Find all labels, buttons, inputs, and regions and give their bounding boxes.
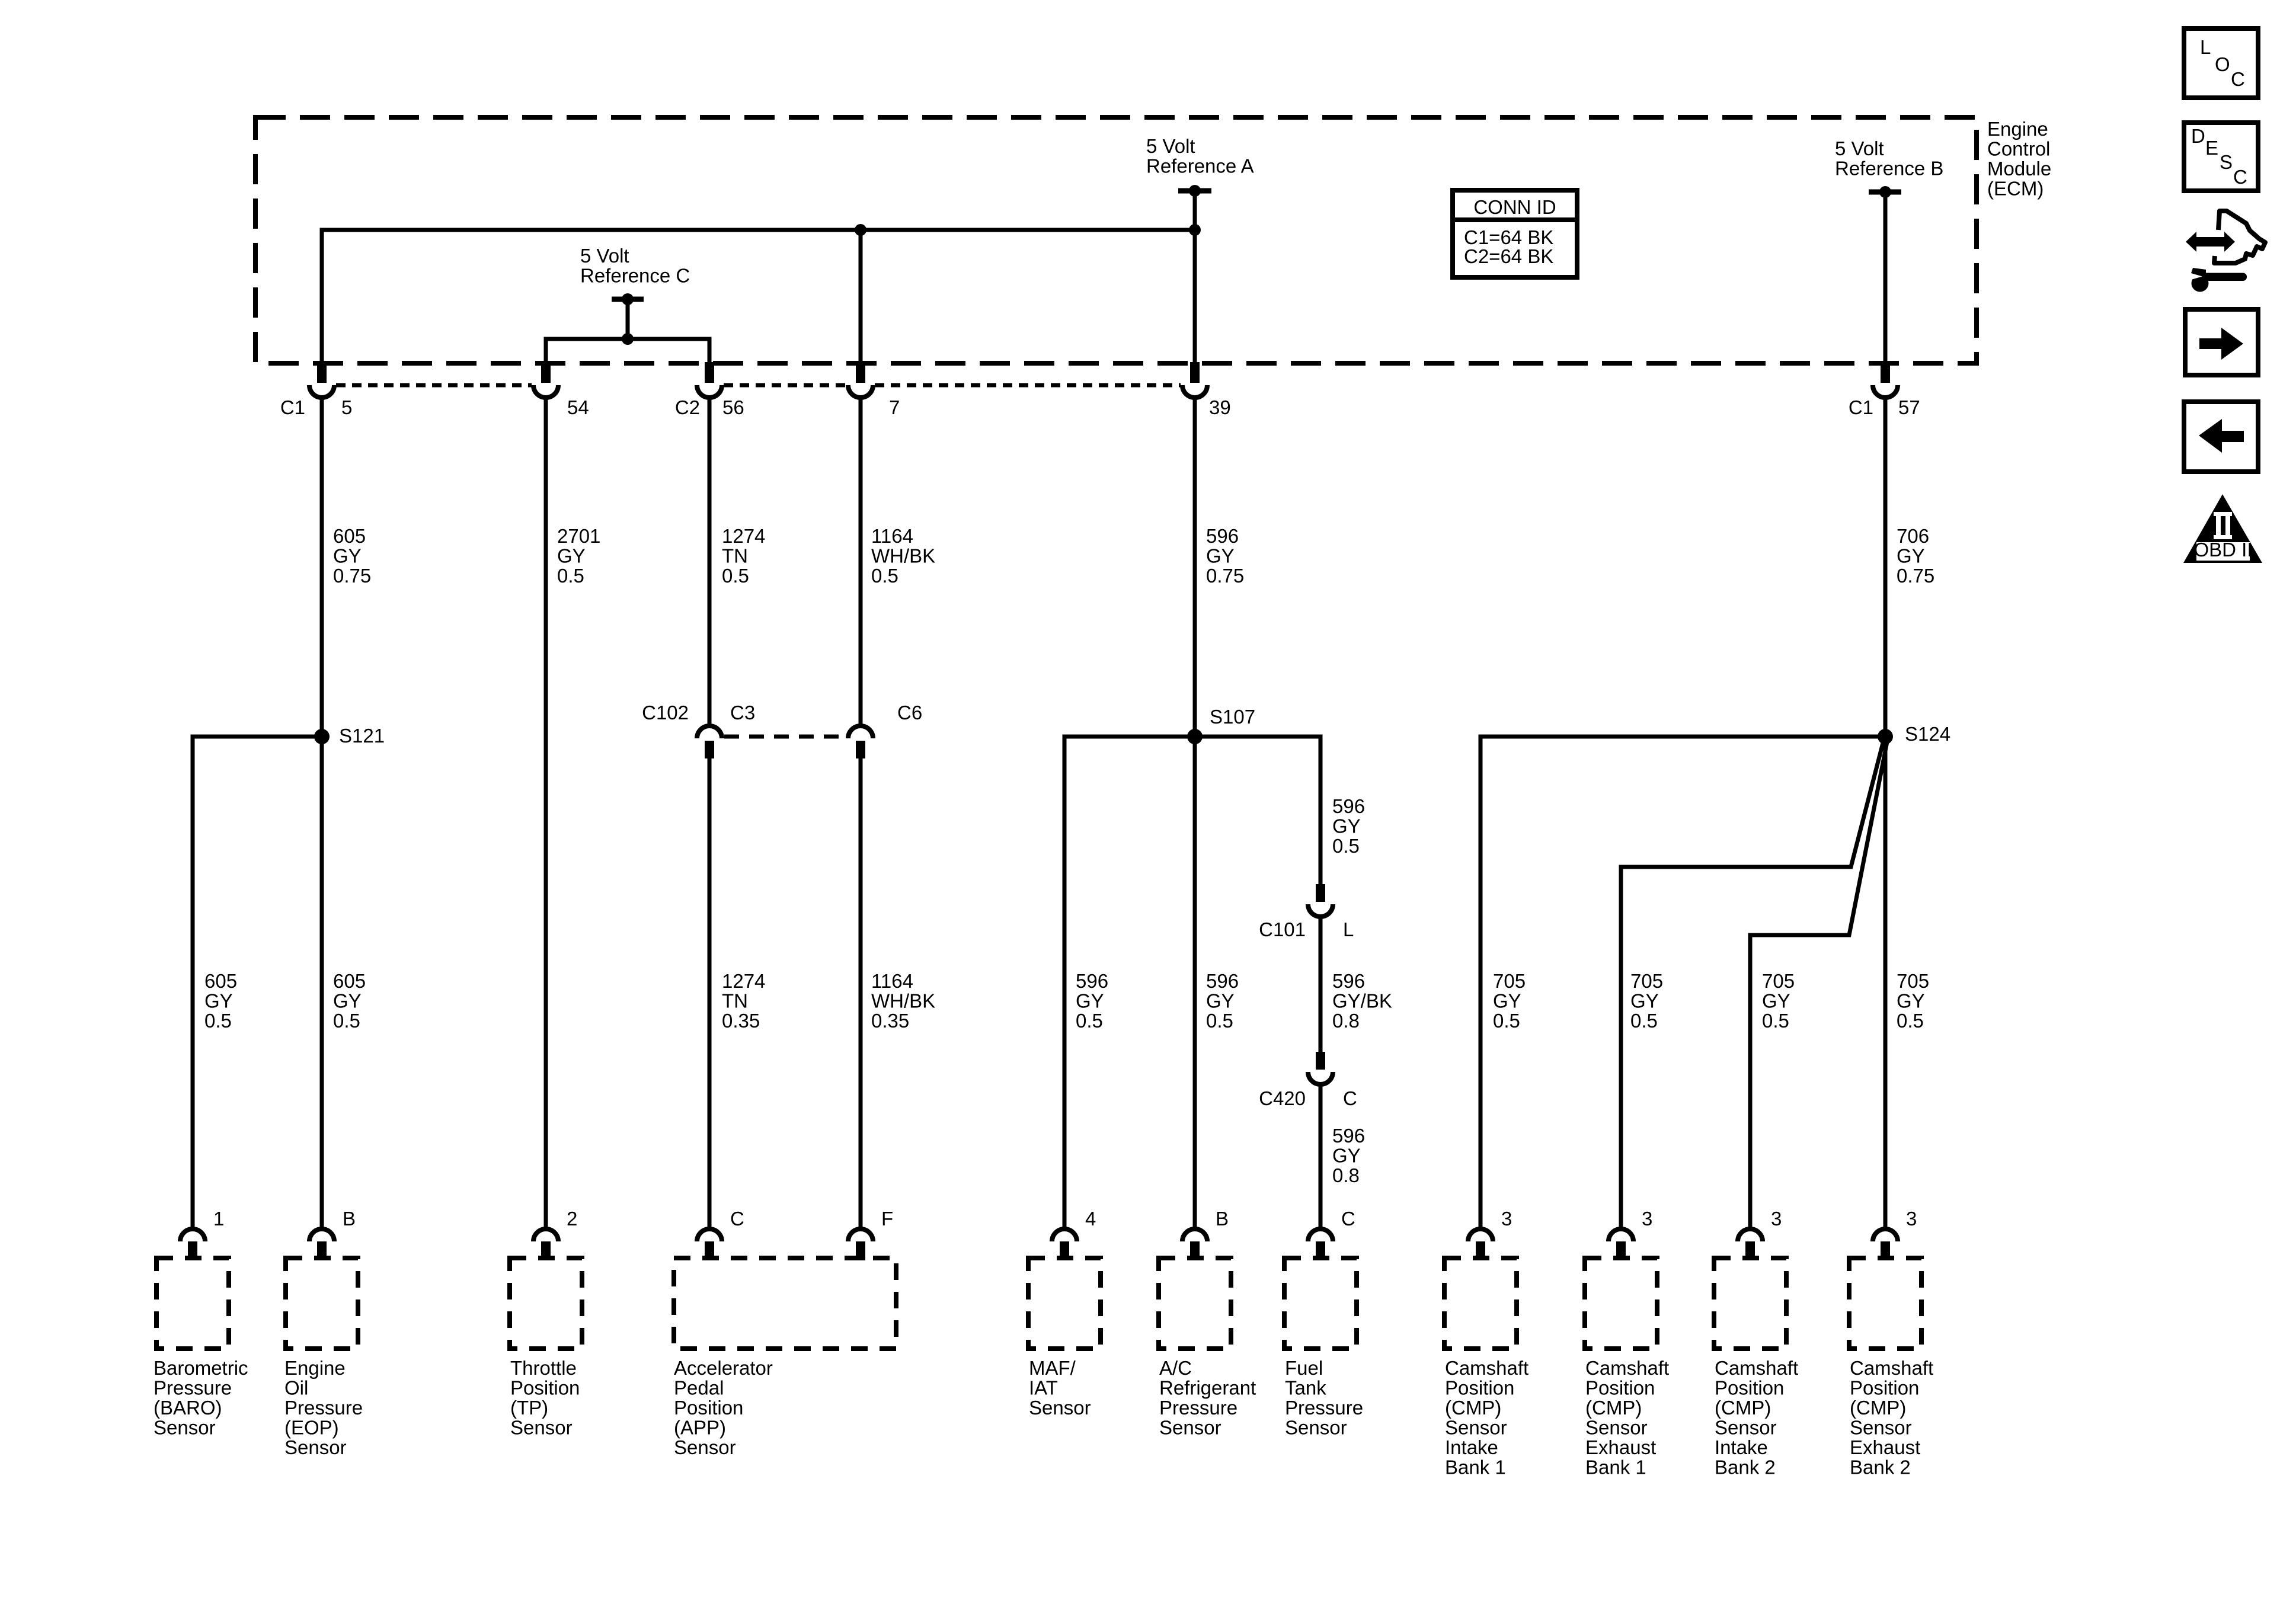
svg-text:1164: 1164 <box>871 970 913 992</box>
svg-text:2: 2 <box>567 1208 577 1230</box>
wire: Ref C split to pins 54 and 56 <box>546 339 709 363</box>
svg-text:0.5: 0.5 <box>1076 1010 1103 1032</box>
svg-text:705: 705 <box>1630 970 1663 992</box>
svg-text:S121: S121 <box>339 725 385 747</box>
svg-text:(ECM): (ECM) <box>1987 178 2044 200</box>
junction node on bus at Ref A <box>1189 224 1201 236</box>
svg-text:596: 596 <box>1076 970 1108 992</box>
svg-text:0.35: 0.35 <box>722 1010 760 1032</box>
ECM connector pin terminal 2 <box>541 362 551 383</box>
svg-text:596: 596 <box>1206 970 1239 992</box>
svg-text:Pedal: Pedal <box>674 1377 724 1399</box>
svg-text:GY: GY <box>1332 1145 1361 1167</box>
svg-text:2701: 2701 <box>557 525 600 547</box>
svg-text:0.5: 0.5 <box>557 565 584 587</box>
wire 596 GY: C420 to fuel tank sensor <box>1319 1085 1323 1228</box>
connector body dotted line C1 <box>336 383 532 388</box>
svg-text:54: 54 <box>567 396 589 418</box>
svg-text:GY: GY <box>1630 990 1659 1012</box>
svg-text:Bank 2: Bank 2 <box>1715 1457 1776 1478</box>
svg-text:5 Volt: 5 Volt <box>1146 135 1195 157</box>
sensor dashed box Barometric <box>156 1258 229 1349</box>
wire 596 GY/BK: C101 to C420 <box>1319 917 1323 1053</box>
svg-text:Throttle: Throttle <box>510 1357 577 1379</box>
svg-text:(EOP): (EOP) <box>284 1417 339 1439</box>
sensor connector terminal pin C at x=1197 <box>697 1229 722 1241</box>
sensor dashed box Camshaft <box>1849 1258 1921 1349</box>
sensor connector terminal pin 4 at x=1796 <box>1052 1229 1077 1241</box>
svg-text:E: E <box>2205 137 2218 159</box>
svg-text:GY: GY <box>1493 990 1521 1012</box>
svg-text:GY: GY <box>1897 990 1925 1012</box>
svg-text:39: 39 <box>1209 396 1231 418</box>
splice S121 <box>314 729 330 744</box>
svg-text:Camshaft: Camshaft <box>1585 1357 1669 1379</box>
svg-text:C: C <box>2231 68 2245 90</box>
wire S107 branch crossbar <box>1064 737 1320 1228</box>
sensor connector terminal pin F at x=1452 <box>848 1229 873 1241</box>
svg-text:0.75: 0.75 <box>1897 565 1934 587</box>
wire: Ref C tap down <box>626 299 630 339</box>
svg-text:Camshaft: Camshaft <box>1850 1357 1933 1379</box>
svg-text:C: C <box>730 1208 744 1230</box>
sensor connector terminal pin B at x=2016 <box>1182 1229 1207 1241</box>
svg-text:Position: Position <box>1585 1377 1655 1399</box>
svg-text:Position: Position <box>1445 1377 1514 1399</box>
svg-text:TN: TN <box>722 990 748 1012</box>
svg-text:B: B <box>343 1208 356 1230</box>
svg-text:WH/BK: WH/BK <box>871 545 935 567</box>
svg-text:Refrigerant: Refrigerant <box>1159 1377 1256 1399</box>
svg-text:Pressure: Pressure <box>154 1377 232 1399</box>
svg-text:0.5: 0.5 <box>1762 1010 1789 1032</box>
CONN ID table <box>1453 190 1577 277</box>
svg-text:GY: GY <box>1076 990 1104 1012</box>
svg-text:GY: GY <box>333 990 362 1012</box>
sensor connector terminal pin 3 at x=2953 <box>1738 1229 1763 1241</box>
svg-text:1274: 1274 <box>722 525 765 547</box>
svg-text:3: 3 <box>1906 1208 1917 1230</box>
inline connector C101 <box>1316 884 1325 902</box>
ECM connector pin terminal 5 <box>1190 362 1200 383</box>
svg-text:Sensor: Sensor <box>1285 1417 1347 1439</box>
svg-text:L: L <box>1343 918 1354 940</box>
svg-text:1164: 1164 <box>871 525 913 547</box>
svg-text:GY: GY <box>204 990 233 1012</box>
sensor connector terminal pin 1 at x=325 <box>180 1229 205 1241</box>
svg-text:GY: GY <box>333 545 362 567</box>
svg-text:0.5: 0.5 <box>204 1010 232 1032</box>
svg-text:S107: S107 <box>1210 706 1255 728</box>
svg-text:GY: GY <box>1897 545 1925 567</box>
svg-text:Intake: Intake <box>1445 1436 1498 1458</box>
svg-text:Camshaft: Camshaft <box>1715 1357 1798 1379</box>
junction node on bus at pin 7 wire <box>855 224 866 236</box>
svg-text:705: 705 <box>1897 970 1929 992</box>
svg-text:Control: Control <box>1987 138 2050 160</box>
svg-text:0.5: 0.5 <box>1897 1010 1924 1032</box>
ECM module dashed box <box>255 117 1977 363</box>
svg-text:706: 706 <box>1897 525 1929 547</box>
svg-text:Intake: Intake <box>1715 1436 1768 1458</box>
wire S124 branch to CMP exhaust bank 1 <box>1621 741 1884 1228</box>
svg-text:Pressure: Pressure <box>284 1397 363 1419</box>
svg-text:GY/BK: GY/BK <box>1332 990 1392 1012</box>
sensor connector terminal pin B at x=543 <box>309 1229 334 1241</box>
svg-text:3: 3 <box>1642 1208 1652 1230</box>
5 Volt Reference C power tap <box>612 297 644 302</box>
svg-text:C102: C102 <box>642 702 689 724</box>
icon LOC box <box>2184 28 2258 98</box>
svg-text:S: S <box>2220 151 2233 173</box>
svg-text:GY: GY <box>557 545 586 567</box>
svg-text:(CMP): (CMP) <box>1585 1397 1642 1419</box>
svg-text:C: C <box>2233 166 2247 188</box>
svg-text:Reference C: Reference C <box>580 265 690 287</box>
svg-text:C: C <box>1343 1087 1357 1109</box>
connector body dotted line C2 <box>724 383 846 388</box>
svg-text:Sensor: Sensor <box>154 1417 216 1439</box>
svg-text:Sensor: Sensor <box>284 1436 347 1458</box>
svg-text:Engine: Engine <box>1987 118 2048 140</box>
wire: Ref B tap to pin 57 <box>1884 192 1888 363</box>
svg-text:GY: GY <box>1206 545 1235 567</box>
svg-text:IAT: IAT <box>1029 1377 1058 1399</box>
svg-text:F: F <box>881 1208 893 1230</box>
icon OBD II triangle <box>2183 494 2262 563</box>
svg-text:Position: Position <box>510 1377 580 1399</box>
svg-text:Fuel: Fuel <box>1285 1357 1323 1379</box>
svg-text:0.5: 0.5 <box>1493 1010 1520 1032</box>
ECM connector pin terminal 6 <box>1881 362 1890 383</box>
icon forward arrow box <box>2185 309 2258 375</box>
svg-text:705: 705 <box>1493 970 1526 992</box>
sensor dashed box Camshaft <box>1714 1258 1786 1349</box>
svg-text:Engine: Engine <box>284 1357 346 1379</box>
wire S124 branch to CMP intake bank 1 <box>1480 737 1885 1228</box>
svg-text:CONN ID: CONN ID <box>1473 196 1556 218</box>
svg-text:Sensor: Sensor <box>1715 1417 1777 1439</box>
svg-text:(CMP): (CMP) <box>1715 1397 1771 1419</box>
sensor connector terminal pin 3 at x=2735 <box>1609 1229 1633 1241</box>
svg-text:C2: C2 <box>675 396 700 418</box>
5 volt reference bus wire <box>322 230 1195 363</box>
inline connector C420 <box>1316 1052 1325 1070</box>
wire 2701 GY: pin 54 to TP <box>544 397 548 1228</box>
wire: Ref A tap to bus <box>1193 191 1197 230</box>
wire branch S121 to BARO <box>193 737 322 1228</box>
svg-text:C420: C420 <box>1259 1087 1306 1109</box>
svg-text:TN: TN <box>722 545 748 567</box>
svg-text:Camshaft: Camshaft <box>1445 1357 1528 1379</box>
svg-text:0.5: 0.5 <box>871 565 898 587</box>
5 Volt Reference A power tap <box>1178 188 1211 194</box>
wire: bus to pin 39 <box>1193 230 1197 363</box>
svg-text:Sensor: Sensor <box>1850 1417 1912 1439</box>
wire 605 GY: pin 5 to S121 to EOP <box>320 397 324 1228</box>
svg-text:C6: C6 <box>897 702 922 724</box>
svg-text:5 Volt: 5 Volt <box>580 245 629 267</box>
svg-text:596: 596 <box>1206 525 1239 547</box>
sensor dashed box A/C <box>1159 1258 1231 1349</box>
svg-text:0.5: 0.5 <box>1630 1010 1658 1032</box>
svg-text:0.8: 0.8 <box>1332 1164 1360 1186</box>
svg-text:C: C <box>1341 1208 1355 1230</box>
svg-text:0.5: 0.5 <box>1332 835 1360 857</box>
ECM connector pin terminal 3 <box>705 362 714 383</box>
svg-text:Sensor: Sensor <box>510 1417 573 1439</box>
svg-text:1: 1 <box>213 1208 224 1230</box>
svg-text:(BARO): (BARO) <box>154 1397 222 1419</box>
icon DESC box <box>2184 123 2258 191</box>
sensor dashed box MAF/ <box>1028 1258 1101 1349</box>
svg-text:WH/BK: WH/BK <box>871 990 935 1012</box>
svg-text:Sensor: Sensor <box>1445 1417 1507 1439</box>
svg-text:0.5: 0.5 <box>722 565 749 587</box>
svg-text:5 Volt: 5 Volt <box>1835 137 1884 159</box>
sensor dashed box Camshaft <box>1585 1258 1657 1349</box>
svg-text:D: D <box>2191 125 2205 147</box>
svg-text:C3: C3 <box>730 702 755 724</box>
svg-text:605: 605 <box>333 525 366 547</box>
svg-text:0.75: 0.75 <box>333 565 371 587</box>
svg-text:(TP): (TP) <box>510 1397 548 1419</box>
svg-text:GY: GY <box>1206 990 1235 1012</box>
svg-text:Exhaust: Exhaust <box>1585 1436 1656 1458</box>
icon back arrow box <box>2184 402 2258 472</box>
wire 596 GY: pin 39 to S107 to A/C sensor <box>1193 397 1197 1228</box>
icon service/engine symbol <box>2186 211 2265 292</box>
sensor dashed box Engine <box>286 1258 358 1349</box>
connector body dotted line C2 pins 7-39 <box>875 383 1181 388</box>
svg-text:MAF/: MAF/ <box>1029 1357 1076 1379</box>
svg-text:Position: Position <box>1850 1377 1919 1399</box>
svg-text:596: 596 <box>1332 970 1365 992</box>
svg-text:Oil: Oil <box>284 1377 308 1399</box>
svg-text:705: 705 <box>1762 970 1795 992</box>
svg-text:605: 605 <box>204 970 237 992</box>
svg-text:OBD II: OBD II <box>2193 539 2252 561</box>
ECM connector pin terminal 4 <box>856 362 865 383</box>
wire 706 GY: pin 57 to S124 to CMP exhaust bank 2 <box>1884 397 1888 1228</box>
sensor connector terminal pin 3 at x=2498 <box>1468 1229 1493 1241</box>
svg-text:Reference B: Reference B <box>1835 158 1943 180</box>
svg-text:C1: C1 <box>1849 396 1873 418</box>
splice S107 <box>1187 729 1203 744</box>
splice S124 <box>1878 729 1893 744</box>
wire 1274 TN: pin 56 to C102 <box>708 397 712 726</box>
svg-text:Position: Position <box>1715 1377 1784 1399</box>
svg-text:1274: 1274 <box>722 970 765 992</box>
svg-text:L: L <box>2200 36 2211 58</box>
svg-text:O: O <box>2215 53 2230 75</box>
sensor dashed box Fuel <box>1284 1258 1357 1349</box>
svg-text:Sensor: Sensor <box>1029 1397 1091 1419</box>
wire: bus to pin 7 <box>859 230 863 363</box>
svg-text:GY: GY <box>1762 990 1790 1012</box>
svg-text:A/C: A/C <box>1159 1357 1192 1379</box>
svg-text:Accelerator: Accelerator <box>674 1357 773 1379</box>
svg-text:Sensor: Sensor <box>674 1436 736 1458</box>
svg-text:(CMP): (CMP) <box>1445 1397 1501 1419</box>
svg-text:Tank: Tank <box>1285 1377 1326 1399</box>
ECM connector pin terminal 1 <box>317 362 327 383</box>
svg-text:Bank 1: Bank 1 <box>1585 1457 1646 1478</box>
svg-text:605: 605 <box>333 970 366 992</box>
svg-text:0.35: 0.35 <box>871 1010 909 1032</box>
connector link C3 to C6 dashed <box>724 735 846 739</box>
svg-text:Module: Module <box>1987 158 2051 180</box>
svg-text:0.75: 0.75 <box>1206 565 1244 587</box>
svg-text:GY: GY <box>1332 815 1361 837</box>
svg-text:5: 5 <box>341 396 352 418</box>
svg-text:Reference A: Reference A <box>1146 155 1254 177</box>
svg-text:Pressure: Pressure <box>1159 1397 1237 1419</box>
svg-text:56: 56 <box>722 396 744 418</box>
wire S124 branch to CMP intake bank 2 <box>1750 742 1887 1228</box>
sensor dashed box Camshaft <box>1444 1258 1517 1349</box>
inline connector C6 <box>848 726 873 738</box>
sensor connector terminal pin 2 at x=921 <box>533 1229 558 1241</box>
svg-text:B: B <box>1216 1208 1229 1230</box>
svg-text:0.5: 0.5 <box>1206 1010 1233 1032</box>
svg-text:7: 7 <box>889 396 900 418</box>
wire 1274 TN lower: C102 to APP <box>708 758 712 1228</box>
sensor dashed box APP (accelerator pedal) <box>674 1258 896 1349</box>
svg-text:Bank 2: Bank 2 <box>1850 1457 1911 1478</box>
svg-text:3: 3 <box>1501 1208 1512 1230</box>
svg-text:Pressure: Pressure <box>1285 1397 1363 1419</box>
inline connector C102/C3 <box>697 726 722 738</box>
svg-text:596: 596 <box>1332 1125 1365 1147</box>
svg-text:Barometric: Barometric <box>154 1357 248 1379</box>
svg-text:Bank 1: Bank 1 <box>1445 1457 1506 1478</box>
sensor connector terminal pin C at x=2228 <box>1308 1229 1333 1241</box>
svg-text:57: 57 <box>1898 396 1920 418</box>
svg-text:Sensor: Sensor <box>1159 1417 1221 1439</box>
5 Volt Reference B power tap <box>1869 190 1901 195</box>
svg-text:0.8: 0.8 <box>1332 1010 1360 1032</box>
sensor dashed box Throttle <box>510 1258 582 1349</box>
svg-text:C101: C101 <box>1259 918 1306 940</box>
svg-text:Sensor: Sensor <box>1585 1417 1648 1439</box>
svg-text:C2=64 BK: C2=64 BK <box>1464 245 1553 267</box>
svg-text:(APP): (APP) <box>674 1417 726 1439</box>
svg-text:(CMP): (CMP) <box>1850 1397 1906 1419</box>
svg-text:3: 3 <box>1771 1208 1782 1230</box>
svg-text:596: 596 <box>1332 795 1365 817</box>
svg-text:0.5: 0.5 <box>333 1010 360 1032</box>
wire 1164 WH/BK lower: C6 to APP <box>859 758 863 1228</box>
svg-text:Exhaust: Exhaust <box>1850 1436 1920 1458</box>
svg-text:4: 4 <box>1085 1208 1096 1230</box>
sensor connector terminal pin 3 at x=3181 <box>1873 1229 1898 1241</box>
wire 1164 WH/BK: pin 7 to C6 <box>859 397 863 726</box>
svg-text:S124: S124 <box>1905 723 1950 745</box>
svg-text:C1: C1 <box>280 396 305 418</box>
svg-text:Position: Position <box>674 1397 743 1419</box>
junction node Ref C split <box>622 333 634 345</box>
